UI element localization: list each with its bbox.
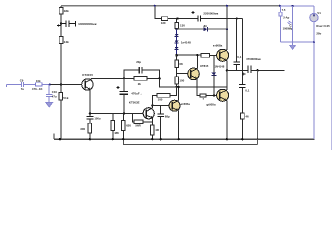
node B base Q1 [60,83,62,85]
wire emitter bus y113.6 [90,113,146,115]
svg-text:Д9: Д9 [203,24,207,28]
wire Q3 base line [152,104,172,106]
wire Q3 emitter [177,110,180,139]
diode D3 [203,27,207,31]
resistor R13 130 vertical [176,19,178,23]
wire R4 to ground rail [60,100,62,139]
node C Q1 collector [123,77,125,79]
svg-text:68: 68 [179,62,183,66]
svg-text:56R: 56R [135,124,141,128]
wire Q4 collector [225,6,228,51]
svg-text:C10: C10 [52,90,58,94]
resistor R9 56R base-emitter Q2 [133,114,134,122]
wire top +V rail [61,5,280,7]
svg-text:КТ815: КТ815 [200,64,209,68]
svg-text:68p: 68p [165,114,170,118]
svg-text:M8: M8 [115,131,119,135]
node G Q2 collector [151,104,153,106]
svg-text:47u: 47u [52,94,57,98]
diode D1 [176,29,178,34]
svg-text:100: 100 [158,98,163,102]
node rail R [226,5,228,7]
svg-text:1N4148: 1N4148 [215,64,225,68]
wire Q6 emitter [197,79,200,96]
svg-text:100: 100 [179,79,184,83]
node V [313,41,315,43]
node O Q6 base tap [176,67,178,76]
node rail end [279,5,281,7]
svg-text:0,1: 0,1 [245,89,249,93]
wire left bias chain x61 [60,6,62,85]
svg-text:130: 130 [161,21,166,25]
svg-text:10k: 10k [36,79,41,83]
resistor R7 M8 [112,114,114,121]
node rail J [154,5,156,7]
resistor R14 68 [176,55,178,60]
svg-text:620: 620 [126,123,131,127]
svg-text:51k: 51k [63,96,68,100]
svg-text:KT315V: KT315V [82,73,93,77]
node F [123,112,125,114]
wire Q5 emitter [225,100,228,139]
transistor Q6 KT815 [188,68,200,80]
resistor R10 4R Q2 emitter [151,125,155,135]
svg-text:1n4148: 1n4148 [181,40,191,44]
svg-text:1000Mp: 1000Mp [283,27,293,31]
resistor R3 10k input [35,83,42,86]
diode D4 1N4148 bias [213,55,215,72]
transistor Q2 KT503E [143,108,154,119]
resistor R5 2k [124,77,134,79]
node T [256,69,258,71]
resistor R12 130 horizontal [161,17,167,21]
svg-text:470uF→: 470uF→ [131,92,142,96]
ground input [46,103,52,107]
wire output y71.6 [227,69,248,71]
input terminal [7,82,36,87]
ground rail nodes [59,138,61,140]
wire Q1 emitter [89,90,91,114]
svg-text:7u: 7u [21,87,25,91]
wire Q2 emitter [151,118,153,125]
resistor R4 51k [60,84,62,92]
wire ground rail [54,138,314,140]
capacitor C6 470uF [123,78,125,91]
capacitor C10 47u input shunt [46,84,53,102]
wire base Q6 [177,72,191,74]
transistor Q4 KT908A [217,49,229,61]
node N [175,54,178,57]
capacitor C1 1000000mk [61,20,76,27]
wire mid bus y86.8 [160,78,227,87]
node K [176,17,178,19]
transistor Q1 KT315V [82,79,93,90]
capacitor C7 100u Q1 emitter [89,114,91,117]
node D [159,77,161,79]
wire y29 diode feed [177,28,204,30]
svg-text:KT503E: KT503E [129,101,140,105]
node U [292,5,294,7]
wire psu bottom [280,41,314,43]
diode D2b [175,47,179,50]
resistor R8 620 [122,114,124,121]
wire chainA collector load [152,96,157,106]
capacitor C13 4700000mk output [248,65,251,73]
svg-text:20p: 20p [136,60,141,64]
svg-text:28v: 28v [316,32,321,36]
capacitor C8 68p [160,105,162,114]
svg-text:7.5: 7.5 [282,8,286,12]
resistor R1 18k [59,8,63,15]
wire Q4 emitter [225,60,228,70]
svg-text:470...1K: 470...1K [32,87,43,91]
svg-text:18k: 18k [64,9,69,13]
wire lower return rail [123,139,257,144]
node H [175,86,177,88]
capacitor C4 input [20,82,22,87]
capacitor C3 1000M [287,21,291,25]
capacitor C11 0,1 bootstrap [236,19,238,62]
resistor R17 56R Q6 emitter to Q5 base [200,94,206,97]
node P [196,54,198,56]
capacitor C9 2200000mk [198,15,201,21]
node S output [226,69,228,71]
capacitor C5 20p feedback loop [124,67,160,78]
wire speaker return [257,70,259,144]
wire base Q1 [61,83,85,85]
wire V+ blue top [280,5,314,7]
wire after R3 [42,83,50,85]
wire Q3 collector [177,87,180,101]
svg-text:2k: 2k [138,82,142,86]
svg-text:кт805а: кт805а [181,102,191,106]
svg-text:2200000мк: 2200000мк [203,12,218,16]
capacitor C12 0,1 zobel [241,19,243,85]
wire output to edge [251,69,285,71]
wire input [7,83,21,85]
svg-text:gt905a: gt905a [206,103,216,107]
wire Q1 collector [91,78,124,79]
wire +V feed y18.5 [155,6,162,19]
wire Q2 collector [151,105,153,108]
svg-text:100u: 100u [94,116,100,120]
wire gnd drop [292,6,294,42]
node Q [213,94,215,96]
resistor R2 14k [59,37,63,44]
svg-text:1000000мк: 1000000мк [78,22,97,26]
resistor R16 1k [201,53,209,57]
wire Q5 collector [225,70,228,90]
transistor Q5 GT905A [217,89,229,101]
svg-text:300: 300 [80,127,85,131]
svg-text:V1: V1 [317,11,321,15]
svg-text:кт908а: кт908а [213,44,223,48]
node M [175,28,177,30]
wire ground rail end stub [53,134,55,140]
wire y55 Q4 base line [177,54,201,56]
svg-text:2-Ap: 2-Ap [283,16,289,20]
voltage source V1 [313,6,315,13]
svg-text:46: 46 [245,114,249,118]
node A divider top cap [60,23,62,25]
resistor R11 100 horizontal [157,94,170,98]
node input shunt [49,83,51,85]
diode D2 [175,40,179,43]
node I [178,86,180,88]
resistor R15 100 [175,77,179,85]
svg-text:14k: 14k [64,40,69,44]
wire Q6 collector [196,55,199,68]
right page border [331,0,333,150]
fuse F1 [279,6,281,42]
svg-text:4700000мк: 4700000мк [246,57,261,61]
node E [89,112,91,114]
node L [236,17,238,19]
ground psu [292,42,294,45]
resistor R6 300 [88,123,92,133]
resistor R18 46 zobel [241,113,245,119]
svg-text:Rser=0.05: Rser=0.05 [316,24,330,28]
svg-text:130: 130 [180,24,185,28]
svg-text:0,1: 0,1 [237,55,241,59]
svg-text:C9: C9 [20,79,24,83]
transistor Q3 KT805A [169,100,180,111]
